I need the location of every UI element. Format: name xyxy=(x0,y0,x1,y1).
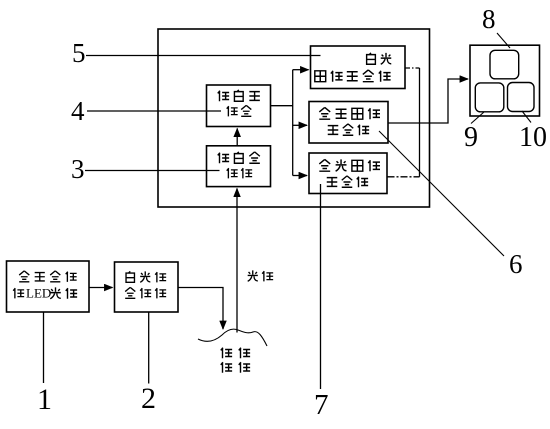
wire: diagonal leader from narrow-band block to label 6 xyxy=(379,131,504,256)
svg-text:4: 4 xyxy=(71,96,85,126)
wire: leader line down to label 1 xyxy=(43,312,45,383)
label text: he mo kuai line 2 xyxy=(125,287,166,298)
wire: dashed link from white-light block output xyxy=(405,67,420,69)
wire: leader line from label 5 into white-light block xyxy=(86,55,321,57)
label text: sheng cheng bu line 2 xyxy=(328,124,369,135)
block U2: signal de-noising part xyxy=(207,85,271,127)
label text: ying guang tu xiang line 1 xyxy=(319,159,380,171)
label text: dai ce (to be measured) xyxy=(221,348,250,359)
block B1: narrow-band multi-spectral LED light source xyxy=(7,261,90,312)
wire: vertical link segment xyxy=(419,68,421,177)
display pane 9 (bottom left) xyxy=(475,83,504,112)
svg-text:8: 8 xyxy=(482,4,496,34)
block U4: narrow-band image generation part xyxy=(309,102,388,144)
wire: leader line from pane to label 9 xyxy=(471,112,484,124)
svg-text:1: 1 xyxy=(37,383,52,416)
label text: duan LED guang yuan line 2 xyxy=(13,286,77,301)
wire: leader line from pane to label 10 xyxy=(522,111,531,123)
wire: de-noising output to branch node xyxy=(271,105,293,107)
svg-text:LED: LED xyxy=(26,286,51,301)
svg-text:6: 6 xyxy=(509,249,523,279)
label text: sheng cheng bu line 2 xyxy=(327,176,368,187)
label text: zhai dai tu xiang line 1 xyxy=(319,107,380,119)
wire: dashed link to fluorescence block output xyxy=(388,176,420,178)
block U3: white-light image generation part xyxy=(311,46,406,89)
label text: zu zhi (tissue) xyxy=(221,362,250,373)
display pane 10 (bottom right) xyxy=(508,83,535,112)
wire: leader line down to label 7 xyxy=(320,184,322,389)
label text: zhai dai duo pu line 1 xyxy=(19,271,76,282)
svg-text:9: 9 xyxy=(464,122,478,153)
label text: bai guang (white light) line 1 xyxy=(367,53,392,64)
label text: yun guang ou line 1 xyxy=(126,271,166,282)
wire: leader line from label 4 into de-noising block xyxy=(87,110,221,112)
svg-text:7: 7 xyxy=(314,389,329,421)
wire: leader line down to label 2 xyxy=(148,312,150,384)
tissue: wavy line of measured tissue xyxy=(198,329,267,346)
svg-text:3: 3 xyxy=(71,154,85,184)
svg-text:5: 5 xyxy=(72,38,86,68)
wire: leader line from label 8 to display pane xyxy=(497,33,510,48)
wire: arrow branch into narrow-band block xyxy=(293,124,307,126)
display monitor box xyxy=(470,45,540,116)
label text: qu bu line 2 xyxy=(227,168,252,178)
wire: coupling module output down to tissue xyxy=(178,288,223,330)
label text: zao bu line 2 xyxy=(227,105,252,116)
label text: xin hao huo line 1 xyxy=(218,152,260,163)
wire: arrow branch into white-light block xyxy=(293,69,309,71)
wire: leader line from label 3 into acquisition block xyxy=(85,170,220,172)
label text: tu xiang sheng cheng bu line 2 xyxy=(315,70,391,82)
big box: processor enclosure xyxy=(158,29,430,207)
block U1: signal acquisition part xyxy=(207,146,271,187)
block B2: uniform light coupling module xyxy=(115,262,179,312)
label text: xin hao qu line 1 xyxy=(218,90,260,101)
svg-text:10: 10 xyxy=(519,122,547,153)
wire: arrow branch into fluorescence block xyxy=(293,175,307,177)
label text: guang xian (optical fiber) xyxy=(248,270,273,281)
display pane 8 (top) xyxy=(490,50,519,79)
wire: arrow from acquisition part up to de-noising part xyxy=(236,129,238,146)
wire: narrow-band image output to display xyxy=(388,79,468,123)
wire: branch vertical bus xyxy=(292,70,294,176)
wire: arrow from LED source to coupling module xyxy=(89,287,113,289)
svg-text:2: 2 xyxy=(141,382,156,415)
block U5: fluorescence image generation part xyxy=(309,153,387,194)
wire: optical fiber from tissue up into acquisition part xyxy=(236,189,238,333)
